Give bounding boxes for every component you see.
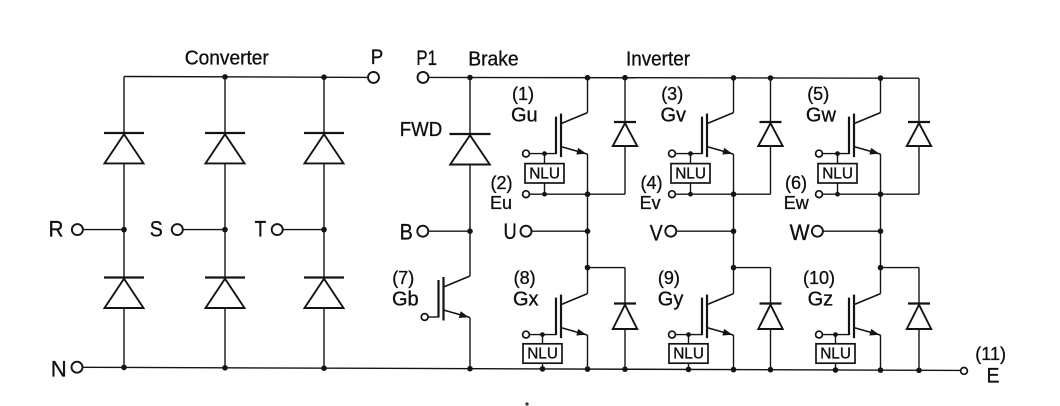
wire Gz gate lead — [822, 334, 849, 336]
svg-text:NLU: NLU — [675, 166, 706, 183]
svg-text:NLU: NLU — [822, 166, 853, 183]
wire S-leg upper — [224, 77, 226, 133]
wire lower diode to rail — [624, 329, 626, 369]
wire upper diode lead V-leg — [770, 78, 772, 122]
svg-text:S: S — [150, 217, 163, 242]
terminal E — [961, 368, 968, 375]
svg-text:Gb: Gb — [392, 288, 419, 310]
diode FW lower W-leg — [907, 304, 931, 330]
wire Gb gate lead — [428, 316, 438, 318]
svg-text:Brake: Brake — [468, 47, 519, 70]
wire main top rail — [428, 76, 919, 79]
wire Gx gate lead — [529, 334, 556, 336]
NLU unit Gx — [523, 344, 562, 363]
wire NLU to rail — [542, 363, 544, 369]
wire S input — [183, 229, 225, 231]
svg-text:Converter: Converter — [185, 47, 269, 70]
junction — [222, 365, 228, 371]
svg-text:B: B — [400, 220, 413, 245]
junction — [321, 227, 327, 233]
wire converter top rail — [124, 76, 368, 79]
terminal Gw gate — [816, 150, 823, 157]
junction — [878, 228, 884, 234]
junction — [835, 192, 840, 197]
wire Gy collector — [733, 268, 735, 294]
wire NLU to rail — [835, 363, 837, 370]
terminal T — [272, 224, 283, 235]
NLU unit Gz — [816, 344, 855, 363]
transistor Gz (10) — [849, 294, 881, 339]
junction — [540, 332, 545, 337]
junction — [731, 265, 737, 271]
junction — [542, 192, 547, 197]
svg-text:Gy: Gy — [658, 288, 684, 310]
svg-text:Gu: Gu — [511, 104, 538, 126]
svg-text:(2): (2) — [491, 173, 513, 193]
junction — [585, 265, 591, 271]
wire U output — [531, 230, 587, 232]
junction — [622, 366, 628, 372]
terminal Gy gate — [669, 331, 676, 338]
wire T input — [283, 229, 325, 231]
terminal Ew — [816, 191, 823, 198]
wire upper diode to emitter U-leg — [624, 146, 626, 194]
wire Gu emitter down — [587, 154, 589, 268]
wire Ev emitter aux — [675, 193, 770, 195]
diode converter upper D5 — [304, 133, 344, 163]
junction — [686, 332, 691, 337]
wire lower diode lead — [624, 268, 626, 304]
wire NLU upper link — [542, 335, 544, 344]
diode FW upper W-leg — [907, 122, 931, 146]
svg-text:Gz: Gz — [808, 288, 834, 310]
junction — [585, 366, 591, 372]
terminal Gu gate — [523, 150, 530, 157]
svg-text:U: U — [504, 219, 517, 244]
wire R input — [83, 229, 124, 231]
junction — [222, 227, 228, 233]
svg-text:(3): (3) — [661, 84, 683, 104]
svg-text:Gx: Gx — [513, 288, 539, 310]
stray mark — [525, 402, 528, 405]
svg-text:Gw: Gw — [806, 104, 837, 126]
junction — [321, 365, 327, 371]
diode converter lower D2 — [104, 278, 144, 309]
junction — [542, 151, 547, 156]
wire lower diode to rail — [770, 329, 772, 370]
diode FW upper U-leg — [613, 122, 637, 146]
wire lower diode to rail — [918, 329, 920, 370]
wire upper diode lead W-leg — [918, 78, 920, 122]
junction — [731, 191, 737, 197]
terminal Gv gate — [669, 150, 676, 157]
svg-text:NLU: NLU — [673, 346, 704, 363]
junction — [222, 74, 228, 80]
diode converter upper D1 — [104, 133, 144, 163]
junction — [878, 367, 884, 373]
wire Gw collector — [880, 78, 882, 113]
svg-text:P: P — [371, 45, 384, 69]
wire lower diode branch — [881, 267, 920, 269]
terminal Gz gate — [816, 331, 823, 338]
diode FW upper V-leg — [758, 122, 782, 146]
junction — [768, 367, 774, 373]
NLU unit Gu — [525, 164, 564, 183]
wire Gu collector — [587, 78, 589, 113]
junction — [688, 192, 693, 197]
svg-text:Inverter: Inverter — [626, 47, 690, 70]
diode FW lower V-leg — [758, 304, 782, 330]
svg-text:Gv: Gv — [661, 104, 687, 126]
wire brake leg upper — [469, 78, 471, 135]
diode FWD — [450, 134, 491, 165]
wire upper diode to emitter V-leg — [770, 146, 772, 194]
wire Gw gate lead — [822, 153, 849, 155]
wire R-leg middle — [123, 163, 125, 277]
junction — [878, 75, 884, 81]
wire Eu emitter aux — [529, 193, 625, 195]
wire Gx emitter to rail — [587, 335, 589, 369]
wire S-leg lower — [224, 308, 226, 368]
junction — [878, 265, 884, 271]
terminal Gb gate — [421, 314, 428, 321]
junction — [731, 228, 737, 234]
svg-text:N: N — [51, 356, 67, 381]
wire brake leg middle — [469, 165, 471, 277]
junction — [540, 366, 546, 372]
terminal W — [812, 226, 823, 237]
wire Gv emitter down — [733, 154, 735, 268]
svg-text:NLU: NLU — [529, 166, 560, 183]
transistor Gu (1) — [556, 113, 588, 158]
NLU unit Gy — [669, 344, 708, 363]
junction — [768, 75, 774, 81]
transistor Gw (5) — [849, 113, 881, 158]
wire NLU lower link — [690, 183, 692, 194]
wire NLU upper link — [690, 154, 692, 164]
junction — [585, 75, 591, 81]
svg-text:V: V — [650, 221, 663, 246]
NLU unit Gv — [671, 164, 710, 183]
wire bottom rail N-E — [82, 367, 960, 370]
terminal V — [665, 226, 676, 237]
svg-text:(8): (8) — [514, 268, 536, 288]
wire NLU lower link — [837, 183, 839, 194]
junction — [585, 228, 591, 234]
junction — [121, 365, 127, 371]
junction — [585, 191, 591, 197]
svg-text:(10): (10) — [803, 268, 835, 288]
wire S-leg middle — [224, 163, 226, 277]
diode converter lower D6 — [304, 278, 344, 309]
wire T-leg middle — [323, 163, 325, 277]
junction — [622, 75, 628, 81]
wire Gz collector — [880, 268, 882, 294]
wire lower diode lead — [770, 268, 772, 304]
transistor Gb (7) — [439, 276, 471, 321]
diode converter upper D3 — [205, 133, 245, 163]
svg-text:W: W — [790, 220, 811, 245]
junction — [878, 191, 884, 197]
wire Gz emitter to rail — [880, 335, 882, 370]
wire R-leg upper — [123, 77, 125, 134]
wire NLU upper link — [688, 335, 690, 344]
wire NLU upper link — [837, 154, 839, 164]
svg-text:Ew: Ew — [784, 193, 810, 213]
svg-text:Eu: Eu — [490, 193, 512, 213]
terminal S — [172, 224, 183, 235]
svg-text:(6): (6) — [785, 173, 807, 193]
wire Gu gate lead — [529, 153, 556, 155]
wire NLU to rail — [688, 363, 690, 369]
wire NLU lower link — [544, 183, 546, 194]
wire Ew emitter aux — [822, 193, 919, 195]
wire Gy gate lead — [675, 334, 702, 336]
junction — [835, 151, 840, 156]
terminal U — [521, 226, 532, 237]
wire W output — [823, 230, 881, 232]
wire Gw emitter down — [880, 154, 882, 268]
wire NLU upper link — [835, 335, 837, 344]
junction — [467, 75, 473, 81]
wire Gy emitter to rail — [733, 335, 735, 370]
svg-text:NLU: NLU — [820, 346, 851, 363]
svg-text:(5): (5) — [807, 84, 829, 104]
terminal B — [417, 226, 428, 237]
wire lower diode branch — [588, 267, 626, 269]
wire Gv gate lead — [675, 153, 702, 155]
svg-text:E: E — [987, 364, 1000, 387]
wire T-leg upper — [323, 77, 325, 133]
terminal Eu — [523, 191, 530, 198]
wire B input — [428, 230, 470, 232]
svg-text:(7): (7) — [392, 268, 414, 288]
svg-text:R: R — [49, 217, 64, 242]
junction — [467, 366, 473, 372]
wire V output — [676, 230, 733, 232]
wire lower diode lead — [918, 268, 920, 304]
transistor Gv (3) — [702, 113, 734, 158]
junction — [467, 228, 473, 234]
wire NLU upper link — [544, 154, 546, 164]
terminal R — [72, 224, 83, 235]
NLU unit Gw — [818, 164, 857, 183]
svg-text:FWD: FWD — [400, 119, 443, 141]
junction — [833, 367, 839, 373]
svg-text:P1: P1 — [416, 46, 437, 70]
transistor Gx (8) — [556, 294, 588, 339]
svg-text:(11): (11) — [975, 344, 1006, 364]
junction — [731, 367, 737, 373]
wire Gx collector — [587, 268, 589, 294]
junction — [121, 227, 127, 233]
junction — [731, 75, 737, 81]
wire upper diode lead U-leg — [624, 78, 626, 122]
junction — [916, 368, 922, 374]
terminal P — [368, 72, 379, 83]
junction — [833, 332, 838, 337]
terminal P1 — [418, 72, 429, 83]
junction — [321, 74, 327, 80]
svg-text:(9): (9) — [658, 268, 680, 288]
svg-text:(4): (4) — [641, 173, 663, 193]
terminal N — [72, 362, 83, 373]
terminal Ev — [669, 191, 676, 198]
wire upper diode to emitter W-leg — [918, 146, 920, 194]
svg-text:T: T — [255, 216, 267, 241]
diode converter lower D4 — [205, 278, 245, 309]
diode FW lower U-leg — [613, 304, 637, 330]
junction — [686, 367, 692, 373]
svg-text:(1): (1) — [512, 84, 534, 104]
svg-text:Ev: Ev — [640, 193, 661, 213]
wire brake emitter — [469, 318, 471, 369]
wire lower diode branch — [734, 267, 771, 269]
junction — [688, 151, 693, 156]
wire R-leg lower — [123, 308, 125, 367]
wire Gv collector — [733, 78, 735, 113]
svg-text:NLU: NLU — [527, 346, 558, 363]
transistor Gy (9) — [702, 294, 734, 339]
terminal Gx gate — [523, 331, 530, 338]
wire T-leg lower — [323, 308, 325, 368]
